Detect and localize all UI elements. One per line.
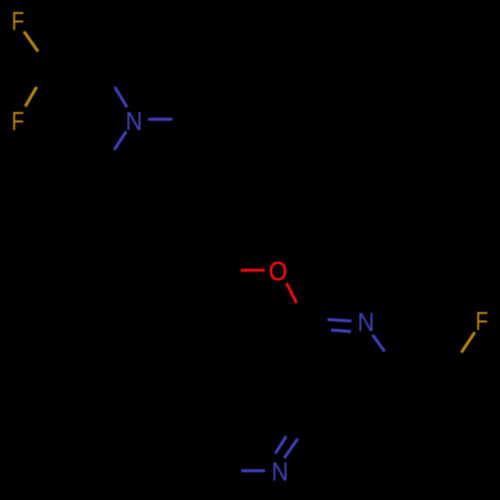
svg-text:N: N — [357, 309, 374, 337]
svg-text:N: N — [126, 108, 143, 136]
svg-text:N: N — [271, 458, 288, 486]
svg-text:O: O — [269, 257, 288, 286]
svg-text:F: F — [476, 307, 489, 336]
svg-text:F: F — [11, 107, 24, 136]
svg-text:F: F — [11, 7, 24, 36]
